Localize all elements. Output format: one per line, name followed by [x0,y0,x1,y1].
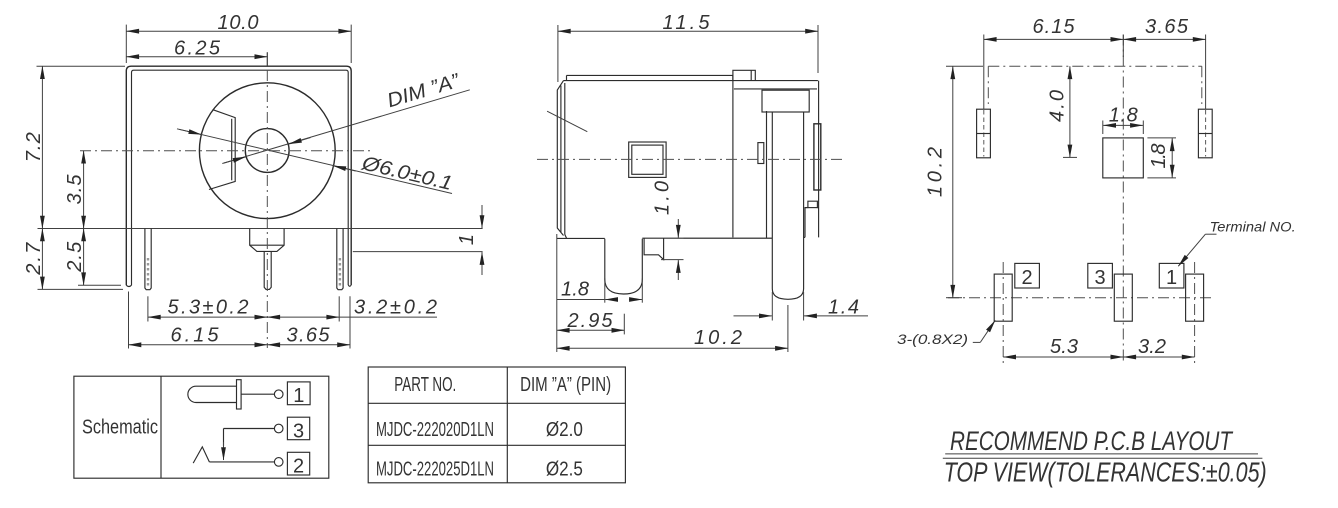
svg-text:6.15: 6.15 [1033,16,1076,38]
svg-text:10.2: 10.2 [694,327,742,349]
svg-text:MJDC-222025D1LN: MJDC-222025D1LN [376,459,494,481]
svg-text:3: 3 [1095,267,1106,289]
svg-text:10.0: 10.0 [218,12,259,34]
svg-text:5.3±0.2: 5.3±0.2 [168,297,249,319]
svg-text:RECOMMEND P.C.B LAYOUT: RECOMMEND P.C.B LAYOUT [950,426,1234,456]
svg-text:3.65: 3.65 [1145,16,1189,38]
svg-text:Ø2.5: Ø2.5 [546,459,583,481]
svg-text:6.25: 6.25 [174,38,221,60]
svg-text:3.5: 3.5 [64,174,86,205]
svg-text:1.8: 1.8 [1148,144,1170,169]
svg-text:2: 2 [1022,267,1033,289]
svg-text:Ø6.0±0.1: Ø6.0±0.1 [359,152,455,195]
svg-text:3.2±0.2: 3.2±0.2 [354,297,437,319]
svg-text:Schematic: Schematic [82,417,158,439]
svg-text:3-(0.8X2): 3-(0.8X2) [897,331,968,347]
svg-text:Ø2.0: Ø2.0 [546,419,583,441]
svg-text:DIM ”A” (PIN): DIM ”A” (PIN) [520,374,611,396]
svg-text:DIM ”A”: DIM ”A” [385,70,464,113]
svg-text:3.2: 3.2 [1138,336,1166,358]
svg-text:11.5: 11.5 [663,12,711,34]
svg-text:3: 3 [293,421,304,443]
svg-text:2.95: 2.95 [567,310,614,332]
svg-text:7.2: 7.2 [23,132,45,162]
svg-text:1: 1 [1166,267,1177,289]
svg-text:Terminal NO.: Terminal NO. [1210,220,1296,235]
svg-text:6.15: 6.15 [171,325,220,347]
svg-text:2: 2 [293,456,304,478]
svg-text:1: 1 [456,234,478,245]
svg-text:2.5: 2.5 [64,241,86,273]
svg-text:1.8: 1.8 [561,278,589,300]
svg-text:5.3: 5.3 [1050,336,1078,358]
svg-text:4.0: 4.0 [1047,90,1069,122]
svg-text:1.4: 1.4 [828,297,859,319]
svg-text:10.2: 10.2 [925,147,947,197]
svg-text:1.8: 1.8 [1109,105,1138,127]
svg-text:MJDC-222020D1LN: MJDC-222020D1LN [376,419,494,441]
svg-text:3.65: 3.65 [287,325,331,347]
svg-text:TOP VIEW(TOLERANCES:±0.05): TOP VIEW(TOLERANCES:±0.05) [944,456,1267,487]
svg-text:2.7: 2.7 [23,242,45,276]
svg-text:1: 1 [293,385,304,407]
svg-text:1.0: 1.0 [652,181,674,215]
svg-text:PART NO.: PART NO. [394,374,456,396]
